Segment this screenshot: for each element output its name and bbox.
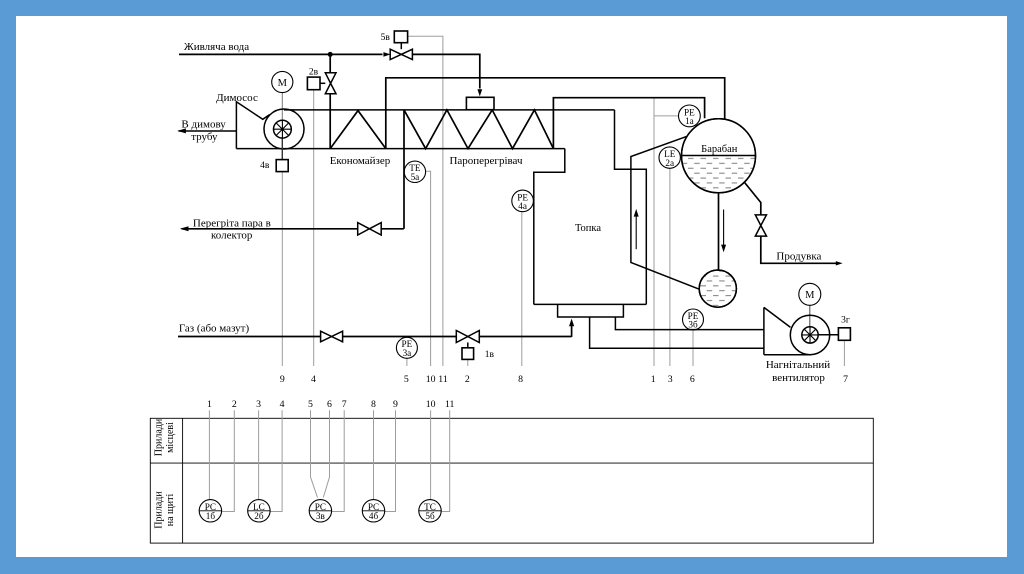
svg-text:10: 10	[426, 374, 436, 385]
svg-text:8: 8	[518, 374, 523, 385]
svg-text:11: 11	[445, 399, 455, 410]
svg-text:Топка: Топка	[575, 223, 601, 234]
svg-text:7: 7	[342, 399, 347, 410]
svg-text:4б: 4б	[369, 511, 379, 521]
svg-text:на щиті: на щиті	[165, 494, 176, 527]
svg-text:9: 9	[393, 399, 398, 410]
svg-text:М: М	[278, 78, 288, 89]
svg-text:5в: 5в	[381, 33, 391, 43]
svg-text:6: 6	[327, 399, 332, 410]
svg-text:вентилятор: вентилятор	[772, 372, 825, 384]
svg-text:Нагнітальний: Нагнітальний	[766, 359, 830, 371]
svg-text:2а: 2а	[665, 158, 674, 168]
svg-text:В димову: В димову	[181, 119, 226, 131]
svg-text:5: 5	[308, 399, 313, 410]
svg-text:2в: 2в	[309, 68, 319, 78]
svg-text:Продувка: Продувка	[776, 251, 821, 263]
svg-text:колектор: колектор	[211, 229, 253, 241]
svg-text:1б: 1б	[206, 511, 216, 521]
svg-text:11: 11	[438, 374, 448, 385]
svg-text:3: 3	[256, 399, 261, 410]
svg-text:4а: 4а	[518, 201, 527, 211]
svg-text:4: 4	[280, 399, 285, 410]
svg-text:Димосос: Димосос	[216, 92, 258, 104]
svg-text:2: 2	[232, 399, 237, 410]
svg-text:5а: 5а	[411, 172, 420, 182]
svg-text:5б: 5б	[425, 511, 435, 521]
svg-text:3а: 3а	[403, 348, 412, 358]
svg-text:3г: 3г	[841, 315, 850, 325]
svg-text:1: 1	[651, 374, 656, 385]
svg-text:Газ (або мазут): Газ (або мазут)	[179, 322, 250, 334]
svg-text:Прилади: Прилади	[154, 491, 165, 529]
svg-text:Прилади: Прилади	[154, 418, 165, 456]
svg-text:1: 1	[207, 399, 212, 410]
svg-text:2б: 2б	[254, 511, 264, 521]
svg-text:8: 8	[371, 399, 376, 410]
svg-text:трубу: трубу	[191, 131, 218, 143]
svg-text:Барабан: Барабан	[701, 144, 738, 155]
svg-text:3: 3	[668, 374, 673, 385]
svg-text:4в: 4в	[260, 161, 270, 171]
svg-text:9: 9	[280, 374, 285, 385]
svg-text:1в: 1в	[485, 350, 495, 360]
svg-text:Перегріта пара в: Перегріта пара в	[193, 217, 271, 229]
svg-text:3б: 3б	[688, 320, 698, 330]
svg-text:4: 4	[311, 374, 316, 385]
svg-text:10: 10	[426, 399, 436, 410]
svg-text:М: М	[805, 290, 815, 301]
svg-text:5: 5	[404, 374, 409, 385]
svg-text:Економайзер: Економайзер	[330, 155, 391, 167]
svg-text:6: 6	[690, 374, 695, 385]
svg-text:7: 7	[843, 374, 848, 385]
svg-text:1а: 1а	[685, 116, 694, 126]
svg-text:місцеві: місцеві	[165, 422, 176, 453]
svg-text:2: 2	[465, 374, 470, 385]
svg-text:Пароперегрівач: Пароперегрівач	[449, 155, 523, 167]
svg-text:3в: 3в	[316, 511, 326, 521]
svg-text:Живляча вода: Живляча вода	[184, 41, 249, 53]
